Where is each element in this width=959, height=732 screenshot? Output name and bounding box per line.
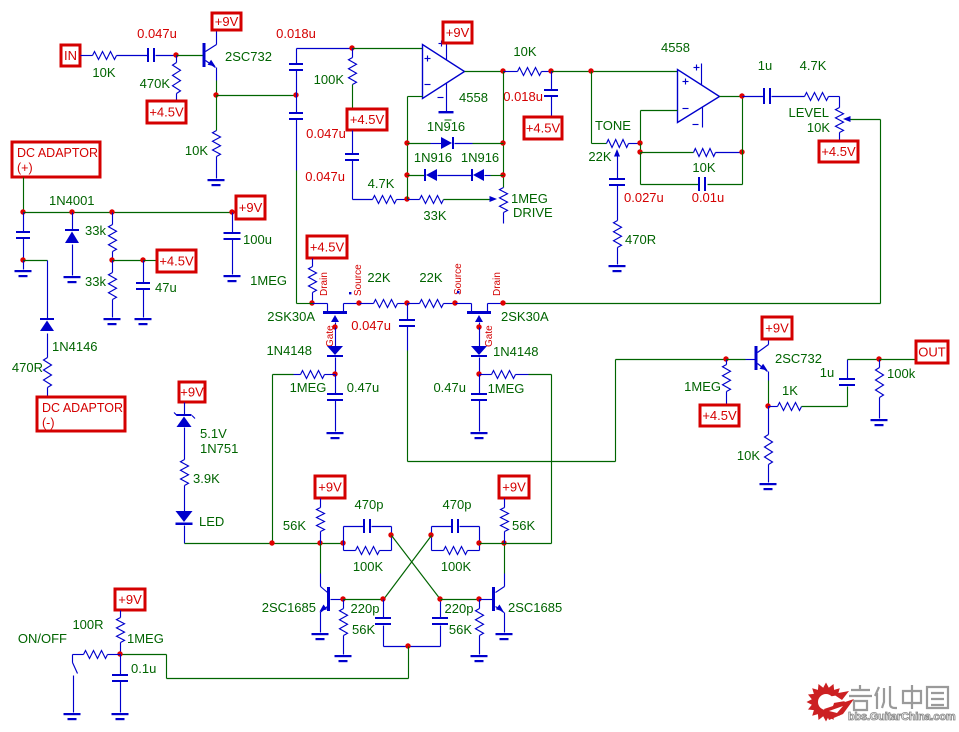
capacitor C8 1u — [743, 58, 805, 104]
capacitor C7 0.01u — [641, 153, 743, 206]
pin label Source — [349, 264, 364, 296]
wire (cross-couple) — [392, 536, 441, 600]
svg-text:TONE: TONE — [595, 118, 631, 133]
junction (U1 output node) — [500, 68, 505, 73]
diode D7 1N4001 (polarity protection) — [65, 213, 79, 276]
svg-text:0.018u: 0.018u — [503, 89, 543, 104]
ground (C13) — [15, 261, 32, 278]
ground (R18) — [760, 483, 777, 490]
resistor R29 56K — [501, 499, 536, 544]
junction — [340, 540, 345, 545]
watermark logo GuitarChina — [807, 683, 956, 724]
wire — [480, 543, 552, 545]
svg-text:IN: IN — [64, 48, 77, 63]
svg-text:LED: LED — [199, 514, 224, 529]
capacitor C12 1u (output coupling) — [820, 360, 855, 387]
pin label Gate — [325, 325, 336, 347]
op-amp U1 4558 (first half) — [423, 45, 488, 106]
svg-text:ON/OFF: ON/OFF — [18, 631, 67, 646]
svg-text:56K: 56K — [283, 518, 306, 533]
junction — [405, 643, 410, 648]
wire (U1 - input) — [408, 96, 423, 98]
capacitor C13 (supply filter) — [16, 213, 30, 261]
resistor R16 1MEG (Q5 bias) — [684, 360, 730, 406]
wire — [217, 95, 297, 97]
switch SW1 ON/OFF — [73, 655, 84, 713]
wire — [640, 144, 642, 153]
junction — [428, 532, 433, 537]
junction — [388, 532, 393, 537]
diode D1 1N916 — [408, 119, 504, 149]
svg-text:+9V: +9V — [180, 385, 204, 400]
wire — [144, 260, 158, 262]
ground (R19) — [871, 419, 888, 426]
junction — [109, 209, 114, 214]
svg-text:4.7K: 4.7K — [800, 58, 827, 73]
svg-text:Drain: Drain — [492, 272, 503, 296]
node +4.5V (C5 return) — [524, 117, 562, 139]
svg-text:0.01u: 0.01u — [692, 190, 725, 205]
resistor R31 100R — [18, 617, 121, 659]
svg-text:100K: 100K — [314, 72, 345, 87]
junction — [20, 257, 25, 262]
svg-text:1N916: 1N916 — [427, 119, 465, 134]
resistor R2 470K (bias) — [140, 56, 181, 102]
wire (Q3 collector) — [320, 544, 322, 587]
node +4.5V (Q1 bias) — [147, 101, 186, 123]
ground (C14) — [135, 318, 152, 325]
diode D8 1N751 zener 5.1V — [174, 403, 238, 460]
RC pair R26 100K / C16 470p — [344, 497, 392, 574]
svg-text:100u: 100u — [243, 232, 272, 247]
resistor R28 56K (Q4 base) — [449, 600, 484, 655]
svg-text:0.47u: 0.47u — [433, 380, 466, 395]
wire (220p common) — [384, 646, 441, 648]
svg-text:0.018u: 0.018u — [276, 26, 316, 41]
wire — [177, 55, 203, 57]
wire (to DRIVE wiper) — [444, 196, 498, 202]
junction (+4.5V node) — [109, 257, 114, 262]
junction (U1 + input node) — [349, 45, 354, 50]
wire — [272, 375, 274, 544]
node +9V (Q1 collector) — [212, 13, 241, 30]
wire — [727, 359, 756, 361]
wire — [353, 199, 373, 201]
wire — [297, 48, 353, 50]
resistor R22 33k — [85, 261, 116, 318]
wire (LFO supply rail) — [185, 543, 344, 545]
svg-text:1N4146: 1N4146 — [52, 339, 98, 354]
svg-text:Source: Source — [453, 263, 464, 295]
junction (J2 gate net) — [476, 371, 481, 376]
resistor R6 33K — [408, 196, 447, 224]
resistor R8 470R — [614, 221, 657, 265]
ground (SW1) — [64, 713, 81, 720]
svg-text:1N751: 1N751 — [200, 441, 238, 456]
junction — [500, 172, 505, 177]
junction (node A) — [293, 92, 298, 97]
capacitor C9 0.47u — [327, 375, 379, 432]
wire — [551, 375, 553, 544]
svg-text:DRIVE: DRIVE — [513, 205, 553, 220]
ground (Q4 emitter) — [496, 633, 513, 640]
svg-text:1N916: 1N916 — [414, 150, 452, 165]
svg-text:1N916: 1N916 — [461, 150, 499, 165]
resistor R12 1MEG — [273, 371, 336, 396]
transistor Q1 2SC732 — [203, 32, 272, 68]
resistor R4 100K — [314, 49, 357, 110]
junction (Q4 base) — [476, 596, 481, 601]
svg-text:10K: 10K — [185, 143, 208, 158]
svg-text:2SC732: 2SC732 — [225, 49, 272, 64]
resistor R20 470R — [12, 358, 52, 398]
svg-text:+4.5V: +4.5V — [350, 112, 385, 127]
svg-text:33k: 33k — [85, 274, 106, 289]
junction (output node) — [876, 356, 881, 361]
capacitor C2 0.018u — [276, 26, 316, 96]
svg-text:10K: 10K — [692, 160, 715, 175]
resistor R14 22K — [408, 270, 456, 308]
svg-text:0.047u: 0.047u — [306, 126, 346, 141]
wire (U1 output) — [465, 71, 504, 73]
svg-text:56K: 56K — [449, 622, 472, 637]
svg-text:+9V: +9V — [318, 480, 342, 495]
node +4.5V (J1 drain load) — [307, 236, 347, 258]
potentiometer VR1 1MEG DRIVE — [500, 188, 554, 224]
svg-text:56K: 56K — [352, 622, 375, 637]
ground (C15) — [224, 275, 241, 282]
svg-text:+9V: +9V — [215, 14, 239, 29]
junction (Q1 emitter node) — [213, 92, 218, 97]
resistor R18 10K (Q5 emitter) — [737, 407, 773, 483]
node +9V (LFO right) — [499, 476, 529, 498]
wire — [23, 178, 25, 213]
diode D6 1N4146 — [40, 261, 98, 358]
ground (Q1 emitter) — [208, 179, 225, 186]
svg-text:10K: 10K — [513, 44, 536, 59]
svg-text:+9V: +9V — [446, 25, 470, 40]
U2 V+ pin — [694, 64, 702, 85]
svg-text:1N4148: 1N4148 — [266, 343, 312, 358]
ground (C20) — [112, 713, 129, 720]
svg-text:10K: 10K — [92, 65, 115, 80]
svg-text:470R: 470R — [625, 232, 656, 247]
junction (J2 drain) — [500, 300, 505, 305]
svg-text:10K: 10K — [737, 448, 760, 463]
wire (LFO to switch) — [121, 647, 409, 679]
capacitor C15 100u — [224, 213, 272, 275]
ground (Q3 emitter) — [312, 633, 329, 640]
resistor R9 10K (tone feedback) — [692, 149, 742, 176]
svg-text:2SK30A: 2SK30A — [267, 309, 315, 324]
transistor Q5 2SC732 — [755, 340, 822, 372]
junction — [317, 540, 322, 545]
wire — [344, 599, 384, 601]
svg-text:220p: 220p — [351, 601, 380, 616]
svg-text:+4.5V: +4.5V — [702, 408, 737, 423]
wire — [81, 55, 93, 57]
capacitor C10 0.047u — [351, 304, 415, 462]
potentiometer VR2 TONE 22K — [588, 118, 640, 180]
capacitor C14 47u — [136, 261, 177, 318]
wire — [848, 359, 880, 361]
ground (C11) — [471, 432, 488, 439]
svg-text:OUT: OUT — [918, 345, 946, 360]
junction — [739, 149, 744, 154]
node +4.5V (LEVEL return) — [819, 141, 858, 162]
svg-text:+4.5V: +4.5V — [159, 254, 194, 269]
svg-text:0.047u: 0.047u — [351, 318, 391, 333]
svg-text:0.47u: 0.47u — [347, 380, 380, 395]
svg-text:2SC1685: 2SC1685 — [508, 600, 562, 615]
svg-text:100K: 100K — [353, 559, 384, 574]
wire (LFO to modulator) — [408, 360, 727, 462]
svg-text:470R: 470R — [12, 360, 43, 375]
svg-text:+9V: +9V — [118, 592, 142, 607]
svg-text:470K: 470K — [140, 76, 171, 91]
svg-text:+9V: +9V — [765, 321, 789, 336]
pin label Drain — [319, 272, 330, 296]
junction (J1 gate) — [332, 324, 337, 329]
resistor R19 100k (output load) — [876, 360, 916, 419]
junction (J1 drain) — [309, 300, 314, 305]
node OUT (output terminal) — [916, 341, 948, 363]
junction — [637, 140, 642, 145]
svg-text:22K: 22K — [588, 149, 611, 164]
node +9V (Q5 collector) — [762, 317, 792, 339]
svg-text:470p: 470p — [443, 497, 472, 512]
svg-text:+9V: +9V — [239, 200, 263, 215]
node +4.5V (R4 return) — [347, 109, 387, 130]
capacitor C11 0.47u — [433, 375, 487, 432]
resistor R3 10K (Q1 emitter) — [185, 96, 221, 179]
junction — [404, 140, 409, 145]
svg-text:LEVEL: LEVEL — [789, 105, 829, 120]
capacitor C3 0.047u — [289, 96, 346, 304]
svg-text:1N4148: 1N4148 — [493, 344, 539, 359]
ground (D7) — [64, 276, 81, 283]
wire — [591, 72, 593, 144]
wire (diode ladder rail right) — [503, 72, 505, 188]
U1 V+ pin — [439, 41, 447, 60]
capacitor C19 220p — [432, 600, 473, 647]
transistor Q4 2SC1685 — [480, 587, 563, 633]
junction (J2 gate) — [476, 324, 481, 329]
node DC ADAPTOR (+) — [12, 142, 100, 177]
wire (cross-couple) — [384, 536, 432, 600]
diode D9 LED — [176, 511, 225, 544]
svg-text:1K: 1K — [782, 383, 798, 398]
svg-text:+9V: +9V — [502, 480, 526, 495]
svg-text:1MEG: 1MEG — [127, 631, 164, 646]
transistor Q3 2SC1685 — [262, 587, 344, 633]
resistor R17 1K — [769, 383, 802, 411]
svg-text:(-): (-) — [42, 416, 55, 430]
junction (Q1 base node) — [173, 52, 178, 57]
svg-text:100R: 100R — [72, 617, 103, 632]
ground (R22) — [104, 318, 121, 325]
node +9V (U1 supply) — [443, 22, 472, 43]
svg-text:2SC732: 2SC732 — [775, 351, 822, 366]
junction (U2 output node) — [739, 93, 744, 98]
junction — [229, 209, 234, 214]
wire — [441, 599, 480, 601]
junction (phase centre node) — [404, 300, 409, 305]
svg-text:0.1u: 0.1u — [131, 661, 156, 676]
svg-text:4558: 4558 — [661, 40, 690, 55]
junction — [501, 540, 506, 545]
svg-text:DC ADAPTOR: DC ADAPTOR — [17, 146, 98, 160]
node +4.5V (divider) — [157, 250, 196, 272]
U1 V- pin — [438, 84, 454, 114]
wire — [353, 48, 423, 50]
svg-text:22K: 22K — [419, 270, 442, 285]
svg-text:0.047u: 0.047u — [137, 26, 177, 41]
svg-text:bbs.GuitarChina.com: bbs.GuitarChina.com — [848, 711, 956, 723]
svg-text:1MEG: 1MEG — [488, 381, 525, 396]
svg-text:Drain: Drain — [319, 272, 330, 296]
diode D4 1N4148 — [266, 328, 343, 375]
junction — [69, 209, 74, 214]
node +9V (switch pull-up) — [115, 589, 145, 610]
svg-text:+4.5V: +4.5V — [821, 144, 856, 159]
capacitor C6 0.027u — [609, 178, 664, 221]
capacitor C1 0.047u (input coupling) — [137, 26, 177, 62]
resistor R21 33k — [85, 213, 116, 261]
junction (Q5 emitter) — [765, 403, 770, 408]
svg-text:0.027u: 0.027u — [624, 190, 664, 205]
resistor R7 10K — [504, 44, 552, 76]
svg-text:33K: 33K — [423, 208, 446, 223]
svg-text:470p: 470p — [355, 497, 384, 512]
junction — [20, 209, 25, 214]
svg-text:0.047u: 0.047u — [305, 169, 345, 184]
junction — [548, 68, 553, 73]
ground (R28) — [471, 655, 488, 662]
wire (level wiper loop) — [504, 120, 881, 304]
svg-text:2SC1685: 2SC1685 — [262, 600, 316, 615]
op-amp U2 4558 (second half) — [661, 40, 720, 123]
RC pair R27 100K / C17 470p — [432, 497, 480, 574]
node +4.5V (Q5 bias) — [700, 405, 739, 426]
svg-text:1MEG: 1MEG — [290, 380, 327, 395]
wire — [742, 97, 744, 153]
junction — [500, 140, 505, 145]
node DC ADAPTOR (-) — [37, 397, 125, 431]
svg-text:+4.5V: +4.5V — [526, 121, 561, 136]
junction (Q5 base node) — [723, 356, 728, 361]
wire — [641, 152, 694, 154]
junction — [404, 196, 409, 201]
svg-text:220p: 220p — [445, 601, 474, 616]
wire — [24, 260, 48, 262]
junction (J1 gate net) — [332, 371, 337, 376]
svg-text:+4.5V: +4.5V — [310, 240, 345, 255]
wire — [216, 68, 218, 96]
svg-text:5.1V: 5.1V — [200, 426, 227, 441]
junction — [140, 257, 145, 262]
svg-text:1u: 1u — [758, 58, 772, 73]
svg-text:1u: 1u — [820, 365, 834, 380]
svg-text:4.7K: 4.7K — [368, 176, 395, 191]
pin label Drain — [492, 272, 503, 296]
svg-text:100k: 100k — [887, 366, 916, 381]
U2 V- pin — [693, 108, 703, 128]
resistor R11 1MEG (J1 drain) — [250, 259, 316, 304]
resistor R1 10K (series input) — [92, 52, 116, 81]
node +9V (supply rail) — [236, 196, 265, 219]
wire — [552, 71, 678, 73]
svg-text:+4.5V: +4.5V — [149, 105, 184, 120]
junction (Q3 base) — [340, 596, 345, 601]
svg-text:Source: Source — [353, 264, 364, 296]
wire — [802, 387, 848, 407]
junction (J2 source) — [452, 300, 457, 305]
capacitor C4 0.047u — [305, 131, 359, 200]
svg-text:10K: 10K — [807, 120, 830, 135]
svg-text:22K: 22K — [367, 270, 390, 285]
junction — [269, 540, 274, 545]
wire — [117, 55, 148, 57]
wire — [397, 199, 408, 201]
junction — [380, 596, 385, 601]
wire (Q4 collector) — [504, 544, 506, 587]
svg-text:2SK30A: 2SK30A — [501, 309, 549, 324]
ground (C9) — [327, 432, 344, 439]
svg-text:33k: 33k — [85, 223, 106, 238]
svg-text:47u: 47u — [155, 280, 177, 295]
junction (J1 source) — [356, 300, 361, 305]
svg-text:1MEG: 1MEG — [511, 191, 548, 206]
svg-text:100K: 100K — [441, 559, 472, 574]
wire (U2 output) — [720, 96, 743, 98]
wire (U2 - input) — [641, 111, 678, 144]
junction — [404, 172, 409, 177]
diode D2 1N916 — [408, 150, 472, 181]
pin label Source — [453, 263, 464, 295]
svg-text:3.9K: 3.9K — [193, 471, 220, 486]
pin label Gate — [484, 325, 495, 347]
resistor R30 1MEG — [117, 611, 164, 655]
wire — [880, 359, 917, 361]
junction — [117, 651, 122, 656]
wire (diode ladder rail left) — [407, 97, 409, 200]
svg-text:1N4001: 1N4001 — [49, 193, 95, 208]
junction — [437, 596, 442, 601]
svg-text:(+): (+) — [17, 161, 33, 175]
capacitor C5 0.018u — [503, 72, 558, 118]
wire — [113, 260, 144, 262]
node +9V (LED chain) — [179, 382, 205, 402]
potentiometer VR3 LEVEL 10K — [789, 97, 881, 142]
capacitor C20 0.1u — [112, 655, 156, 713]
ground (R25) — [335, 655, 352, 662]
node IN (input terminal) — [61, 45, 80, 66]
transistor J1 2SK30A (JFET) — [267, 304, 359, 328]
junction — [476, 540, 481, 545]
wire — [768, 372, 770, 407]
wire — [297, 303, 313, 305]
svg-text:56K: 56K — [512, 518, 535, 533]
wire — [156, 55, 177, 57]
junction (U2 + input node) — [588, 68, 593, 73]
ground (R8) — [609, 265, 626, 272]
diode D3 1N916 — [461, 150, 504, 181]
resistor R23 3.9K — [181, 460, 221, 512]
transistor J2 2SK30A (JFET) — [456, 304, 550, 328]
junction — [637, 149, 642, 154]
svg-text:1MEG: 1MEG — [250, 273, 287, 288]
